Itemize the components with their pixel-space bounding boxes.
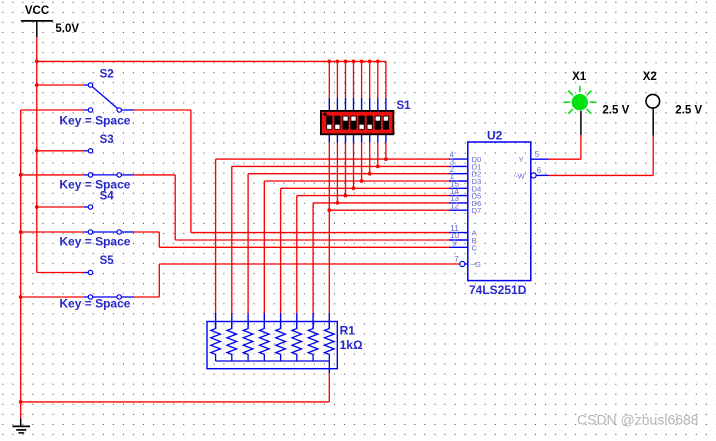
wire S4 output [134, 231, 159, 233]
svg-text:S3: S3 [100, 134, 114, 146]
svg-text:Key = Space: Key = Space [59, 235, 130, 249]
wire dip column 5 above S1 [361, 61, 363, 111]
wire dip column 8 above S1 [385, 61, 387, 111]
wire D0 net: resistor col 1 elbow + row to pin [216, 159, 449, 329]
svg-text:Key = Space: Key = Space [59, 297, 130, 311]
wire R1 common exit [328, 361, 330, 373]
dip switch S1 body [321, 111, 394, 134]
svg-text:2.5 V: 2.5 V [675, 105, 702, 117]
junction VCC/S3 [35, 149, 39, 153]
switch S3 bottom throw wire (GND side) [21, 174, 89, 176]
junction D3 tap on dip column 5 [360, 179, 364, 183]
svg-text:74LS251D: 74LS251D [469, 283, 527, 297]
svg-text:R1: R1 [340, 324, 356, 338]
wire dip column 2 above S1 [336, 61, 338, 111]
switch S4 bottom throw wire (GND side) [21, 231, 89, 233]
pin 4 stub (D0) [449, 158, 468, 160]
op-amp U2 body (74LS251D mux) [468, 142, 531, 281]
wire top feed to S1 [37, 60, 386, 62]
resistor R1 element 4 [260, 322, 270, 362]
wire V1 down to R1 column 8 [328, 210, 330, 328]
switch S3 [88, 149, 134, 177]
wire S5 to pin ~G [159, 264, 459, 297]
pin 10 stub (B) [449, 239, 468, 241]
svg-text:D7: D7 [472, 206, 482, 215]
svg-text:2.5 V: 2.5 V [602, 105, 629, 117]
junction D4 tap on dip column 4 [352, 186, 356, 190]
pin 15 stub (D4) [449, 187, 468, 189]
pin 3 stub (D1) [449, 165, 468, 167]
pin 7 (~G) bubble [460, 261, 465, 266]
resistor R1 element 7 [308, 322, 318, 362]
svg-text:12: 12 [450, 201, 460, 210]
svg-text:Key = Space: Key = Space [59, 113, 130, 127]
resistor R1 pack body [207, 322, 337, 369]
wire ~W output to X2 [549, 108, 654, 175]
wire S3 output [134, 174, 175, 176]
switch S5 top throw wire (VCC side) [37, 272, 89, 274]
switch S2 bottom throw wire (GND side) [21, 109, 89, 111]
pin 12 stub (D7) [449, 209, 468, 211]
wire dip column 7 above S1 [377, 61, 379, 111]
junction top wire / dip column 2 [336, 60, 340, 64]
switch S4 top throw wire (VCC side) [37, 206, 89, 208]
pin 1 stub (D3) [449, 180, 468, 182]
wire S3 to pin B [175, 175, 449, 240]
wire dip column 2 below S1 [336, 134, 338, 203]
wire dip column 4 above S1 [353, 61, 355, 111]
pin 9 stub (C) [449, 246, 468, 248]
svg-text:Y: Y [519, 155, 524, 164]
svg-text:1kΩ: 1kΩ [340, 338, 363, 352]
power VCC symbol [21, 5, 53, 37]
probe X2 (off) [646, 94, 660, 108]
wire D3 net: resistor col 4 elbow + row to pin [264, 181, 449, 329]
pin 14 stub (D5) [449, 195, 468, 197]
wire dip column 1 above S1 [328, 61, 330, 111]
pin 13 stub (D6) [449, 202, 468, 204]
wire S5 output [134, 296, 159, 298]
svg-text:~W: ~W [513, 171, 525, 180]
wire D2 net: resistor col 3 elbow + row to pin [248, 174, 449, 329]
wire dip column 6 below S1 [369, 134, 371, 173]
pin 11 stub (A) [449, 232, 468, 234]
wire dip column 7 below S1 [377, 134, 379, 166]
svg-text:U2: U2 [487, 128, 503, 142]
junction D1 tap on dip column 7 [376, 165, 380, 169]
wire dip column 3 below S1 [345, 134, 347, 195]
svg-text:7: 7 [454, 255, 459, 264]
svg-text:Key = Space: Key = Space [59, 178, 130, 192]
switch S3 top throw wire (VCC side) [37, 150, 89, 152]
wire D4 net: resistor col 5 elbow + row to pin [281, 188, 449, 328]
junction top wire / dip column 6 [368, 60, 372, 64]
svg-text:5.0V: 5.0V [55, 23, 79, 35]
svg-text:S1: S1 [397, 100, 412, 112]
pin 2 stub (D2) [449, 173, 468, 175]
wire dip column 3 above S1 [345, 61, 347, 111]
junction top wire / dip column 1 [327, 60, 331, 64]
junction D0 tap on dip column 8 [384, 157, 388, 161]
resistor R1 element 8 [325, 322, 335, 362]
wire D1 net: resistor col 2 elbow + row to pin [232, 166, 449, 328]
svg-text:C: C [472, 243, 478, 252]
svg-text:6: 6 [537, 166, 542, 175]
junction gnd/S5 [19, 295, 23, 299]
switch S4 [88, 205, 134, 234]
svg-text:9: 9 [452, 239, 457, 248]
wire D5 net: resistor col 6 elbow + row to pin [297, 196, 449, 329]
wire R1 common bus [216, 360, 330, 362]
junction VCC/S4 [35, 205, 39, 209]
svg-text:X1: X1 [572, 71, 587, 83]
wire dip column 1 below S1 [328, 134, 330, 210]
junction VCC/top [35, 60, 39, 64]
wire dip column 4 below S1 [353, 134, 355, 188]
resistor R1 element 6 [292, 322, 302, 362]
junction top wire / dip column 4 [352, 60, 356, 64]
ground symbol [13, 419, 31, 433]
pin 5 stub (Y) [531, 158, 549, 160]
junction gnd/S4 [19, 230, 23, 234]
resistor R1 element 2 [227, 322, 237, 362]
junction D2 tap on dip column 6 [368, 172, 372, 176]
wire ground bus [20, 110, 22, 419]
junction gnd/R1 return [19, 400, 23, 404]
svg-text:~G: ~G [471, 260, 481, 269]
switch S2 [88, 83, 134, 112]
wire R1 return to ground [21, 373, 330, 402]
junction top wire / dip column 5 [360, 60, 364, 64]
svg-text:S4: S4 [100, 190, 115, 202]
junction top wire / dip column 3 [344, 60, 348, 64]
wire Y output to X1 [549, 111, 581, 159]
wire VCC bus [36, 37, 38, 273]
wire dip column 6 above S1 [369, 61, 371, 111]
wire S4 to pin C [159, 232, 449, 247]
wire S2 output [134, 109, 191, 111]
wire D7 net row to pin [329, 209, 449, 211]
resistor R1 element 5 [276, 322, 286, 362]
junction D5 tap on dip column 3 [344, 194, 348, 198]
probe X1 (lit green) [563, 86, 596, 114]
junction VCC/S2 [35, 83, 39, 87]
junction gnd/S3 [19, 173, 23, 177]
switch S5 bottom throw wire (GND side) [21, 296, 89, 298]
svg-text:X2: X2 [643, 71, 657, 83]
junction top wire / dip column 7 [376, 60, 380, 64]
svg-text:5: 5 [535, 150, 540, 159]
resistor R1 element 1 [211, 322, 221, 362]
resistor R1 element 3 [243, 322, 253, 362]
wire D6 net: resistor col 7 elbow + row to pin [313, 203, 449, 329]
wire dip column 5 below S1 [361, 134, 363, 181]
wire dip column 8 below S1 [385, 134, 387, 159]
svg-text:S5: S5 [100, 255, 115, 267]
pin 6 (~W) bubble [531, 173, 536, 178]
svg-text:S2: S2 [100, 69, 114, 81]
switch S5 [88, 270, 134, 299]
junction D6 tap on dip column 2 [336, 201, 340, 205]
svg-text:CSDN @zhusl6688: CSDN @zhusl6688 [577, 412, 699, 428]
wire S2 to pin A [191, 110, 449, 233]
switch S2 top throw wire (VCC side) [37, 84, 89, 86]
junction D7 tap on dip column 1 [327, 208, 331, 212]
svg-text:VCC: VCC [25, 5, 49, 17]
